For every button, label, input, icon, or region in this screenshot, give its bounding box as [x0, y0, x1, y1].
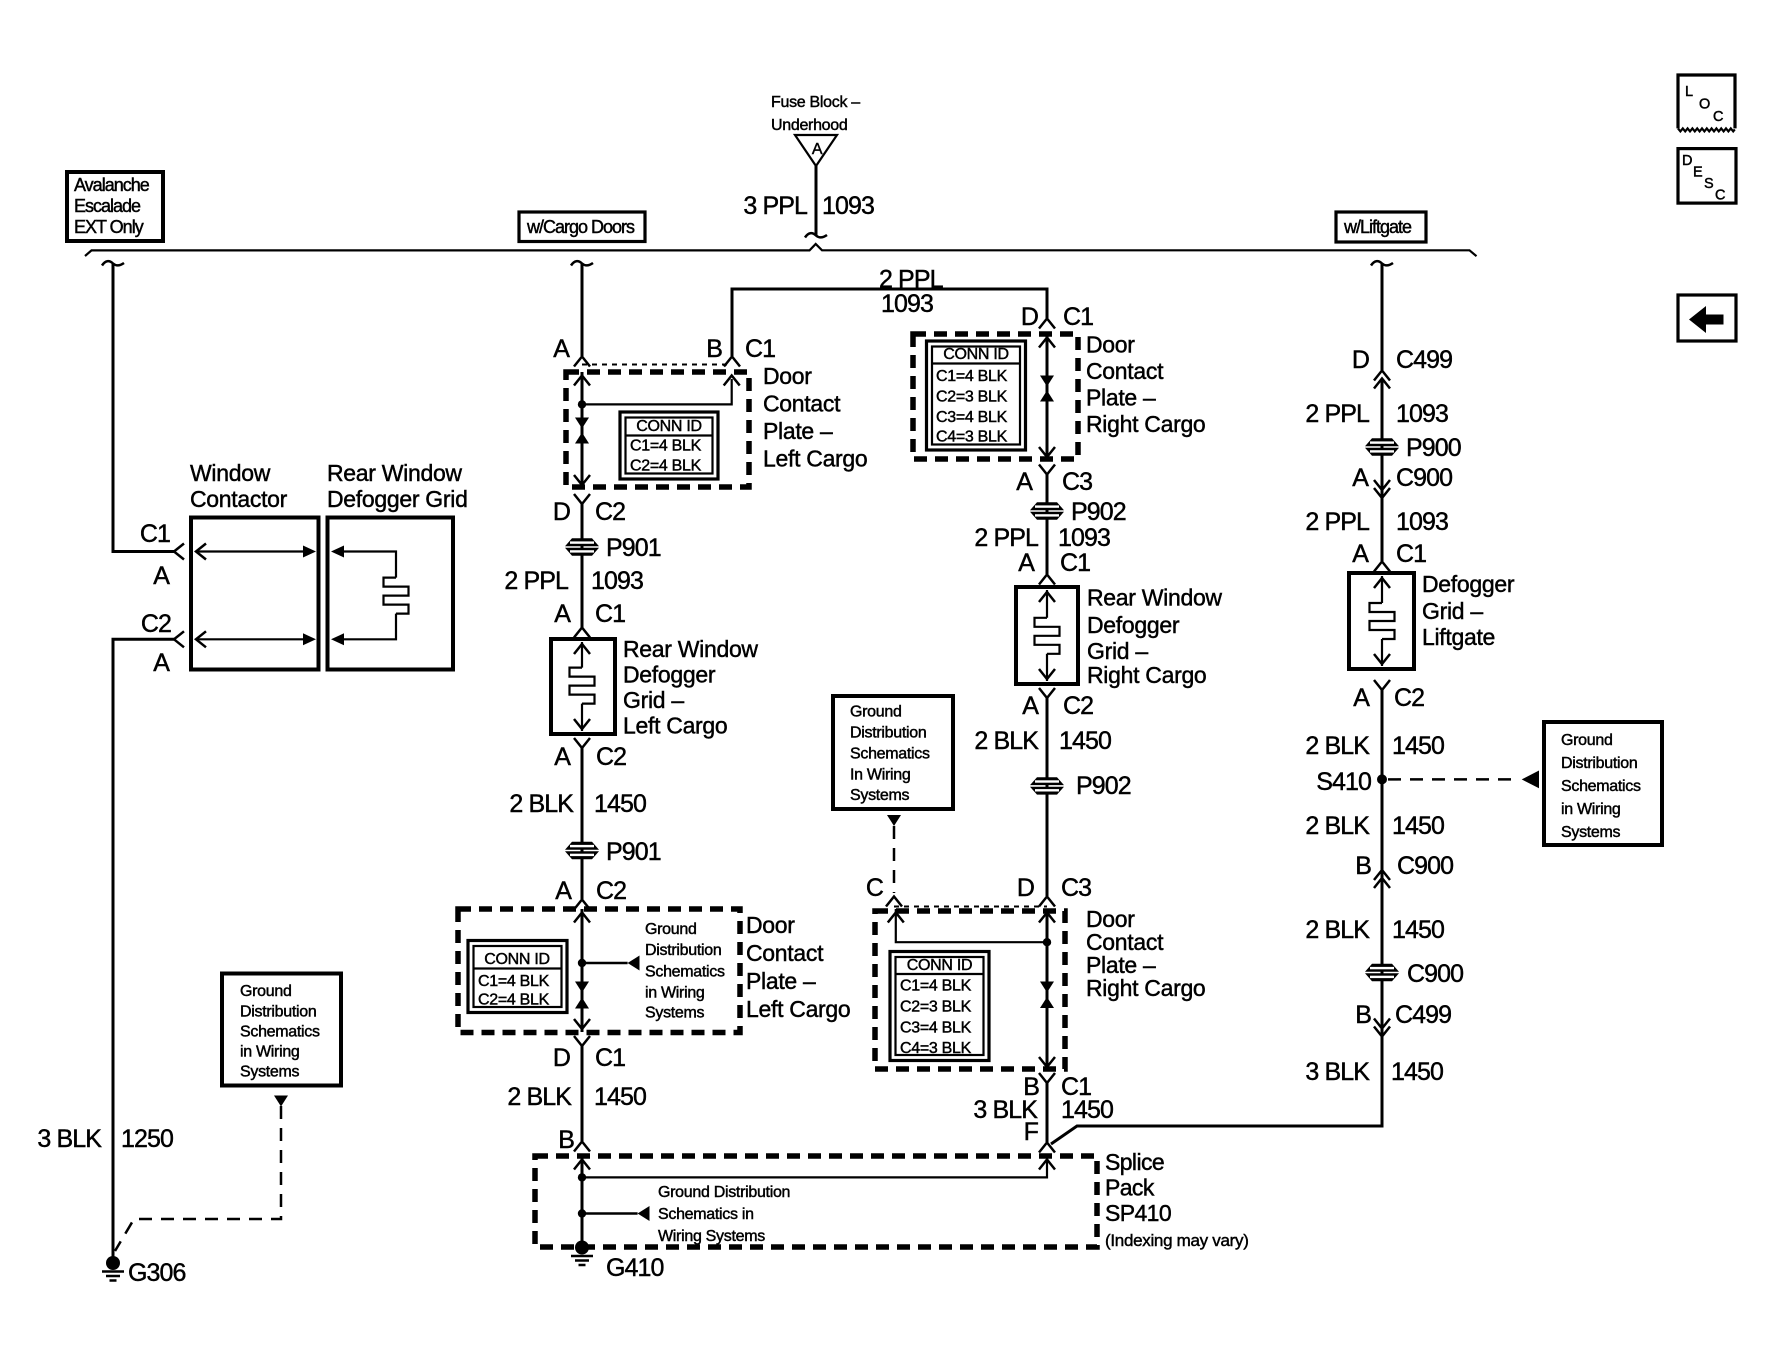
pin label B / C1	[706, 335, 775, 363]
svg-text:2 BLK: 2 BLK	[509, 790, 574, 818]
svg-text:Plate –: Plate –	[1086, 385, 1156, 411]
wire label 2 BLK 1450	[974, 727, 1111, 755]
dashed reference line S410 to GD box	[1388, 778, 1519, 781]
wire label 2 PPL 1093	[974, 524, 1110, 552]
svg-text:w/Cargo Doors: w/Cargo Doors	[526, 217, 635, 237]
grommet P901 (lower)	[565, 838, 661, 866]
wire: right plate feed down from branch	[1046, 289, 1049, 318]
svg-text:1093: 1093	[591, 567, 643, 595]
svg-text:Contact: Contact	[746, 940, 824, 966]
svg-text:Right Cargo: Right Cargo	[1086, 411, 1205, 437]
svg-text:G410: G410	[606, 1254, 664, 1282]
pin label C2 / A	[141, 610, 171, 677]
svg-text:Schematics: Schematics	[1561, 778, 1641, 795]
svg-text:Ground: Ground	[240, 983, 292, 1000]
rear window defogger grid legend box	[328, 518, 454, 670]
component label Door Contact Plate - Right Cargo (bottom)	[1086, 906, 1205, 1001]
component label Rear Window Defogger Grid - Left Cargo	[623, 636, 758, 739]
bus brace	[85, 244, 1477, 256]
ground G306	[102, 1256, 186, 1287]
svg-text:P901: P901	[606, 534, 661, 562]
svg-text:A: A	[555, 877, 572, 905]
component label Window Contactor	[190, 460, 288, 512]
pin label D / C1 (right plate top)	[1021, 303, 1093, 331]
svg-text:C3: C3	[1061, 874, 1091, 902]
back arrow box	[1678, 295, 1736, 341]
svg-text:Plate –: Plate –	[746, 968, 816, 994]
svg-text:1093: 1093	[1396, 508, 1448, 536]
pin label B / C499	[1355, 1001, 1451, 1029]
svg-text:D: D	[1017, 874, 1034, 902]
svg-text:w/Liftgate: w/Liftgate	[1343, 217, 1412, 237]
connector fork C1 window contactor	[174, 544, 184, 560]
connector fork A C3 below right plate	[1039, 465, 1055, 475]
svg-text:C2: C2	[596, 877, 626, 905]
svg-text:Ground Distribution: Ground Distribution	[658, 1184, 790, 1201]
svg-text:Wiring Systems: Wiring Systems	[658, 1228, 765, 1245]
connector fork A C1 above right grid	[1039, 575, 1055, 585]
svg-text:D: D	[1021, 303, 1038, 331]
wire label 2 BLK 1450	[1305, 916, 1444, 944]
svg-text:B: B	[706, 335, 722, 363]
svg-text:1093: 1093	[822, 192, 874, 220]
wire: left plate bottom to splice pack	[581, 1046, 584, 1141]
svg-text:C2: C2	[596, 743, 626, 771]
svg-text:C2=3 BLK: C2=3 BLK	[900, 999, 972, 1016]
pin label A / C2 (left plate bottom)	[555, 877, 626, 905]
svg-text:D: D	[553, 1044, 570, 1072]
svg-text:(Indexing may vary): (Indexing may vary)	[1105, 1231, 1249, 1250]
svg-text:in Wiring: in Wiring	[240, 1044, 300, 1061]
svg-text:Ground: Ground	[645, 921, 697, 938]
svg-text:Left Cargo: Left Cargo	[763, 446, 867, 472]
connector fork B C1 left plate	[724, 357, 740, 367]
pin label A / C2	[554, 743, 626, 771]
svg-text:C2: C2	[1063, 692, 1093, 720]
inline connector C499 return (double chevron down)	[1374, 1019, 1390, 1037]
wire: C499 to P900	[1381, 379, 1384, 491]
svg-text:L: L	[1685, 84, 1693, 100]
right plate top interior	[1039, 334, 1055, 459]
grommet C900	[1365, 960, 1463, 988]
CONN ID table (left plate top)	[620, 412, 718, 479]
svg-text:C: C	[1713, 109, 1723, 125]
dashed ground reference line to pin C	[893, 826, 896, 893]
svg-text:Underhood: Underhood	[771, 117, 847, 134]
connector fork D C3 right plate bottom	[1039, 897, 1055, 907]
svg-text:P900: P900	[1406, 434, 1461, 462]
pin label D / C499	[1352, 346, 1452, 374]
ground distribution schematics box (middle)	[833, 696, 953, 809]
svg-text:3 PPL: 3 PPL	[743, 192, 808, 220]
door contact plate right cargo (top) dashed box	[913, 334, 1078, 459]
svg-text:F: F	[1024, 1118, 1039, 1146]
svg-text:Grid –: Grid –	[1422, 598, 1483, 624]
wire: right plate bottom to splice F	[1046, 1083, 1049, 1142]
svg-text:C3=4 BLK: C3=4 BLK	[936, 409, 1008, 426]
svg-text:C2: C2	[1394, 684, 1424, 712]
wire label 2 PPL 1093	[1305, 400, 1448, 428]
svg-text:Avalanche: Avalanche	[74, 175, 150, 195]
connector fork A C2 below left grid	[574, 738, 590, 748]
svg-text:D: D	[1682, 153, 1692, 169]
svg-text:Defogger: Defogger	[623, 662, 716, 688]
wire label 3 BLK 1450	[1305, 1058, 1443, 1086]
grommet P902 (lower)	[1030, 772, 1131, 800]
LOC tab box	[1678, 75, 1735, 131]
svg-text:2 BLK: 2 BLK	[974, 727, 1039, 755]
svg-text:1093: 1093	[881, 290, 933, 318]
svg-text:Window: Window	[190, 460, 271, 486]
w/Liftgate box	[1336, 212, 1426, 242]
svg-text:2 BLK: 2 BLK	[507, 1083, 572, 1111]
svg-text:Contact: Contact	[763, 391, 841, 417]
component label Splice Pack SP410	[1105, 1149, 1249, 1250]
svg-text:In Wiring: In Wiring	[850, 767, 910, 784]
arrow below left GD box	[274, 1096, 288, 1107]
svg-text:C1: C1	[140, 520, 170, 548]
wire: left grid to left plate bottom	[581, 748, 584, 899]
left plate bottom interior	[574, 909, 640, 1032]
defogger grid liftgate box	[1349, 573, 1414, 669]
connector fork D C2 below left plate	[574, 494, 590, 504]
svg-text:Plate –: Plate –	[763, 418, 833, 444]
wire: C900 to liftgate grid	[1381, 490, 1384, 561]
component label Door Contact Plate - Left Cargo	[763, 363, 867, 472]
svg-text:CONN ID: CONN ID	[636, 418, 701, 435]
pin label A / C2	[1353, 684, 1424, 712]
svg-text:C900: C900	[1396, 464, 1452, 492]
svg-text:Defogger: Defogger	[1087, 612, 1180, 638]
pin label A / C2	[1022, 692, 1093, 720]
svg-text:2 PPL: 2 PPL	[504, 567, 569, 595]
CONN ID table (left plate bottom)	[468, 941, 567, 1013]
component label Door Contact Plate - Left Cargo (bottom)	[746, 912, 850, 1022]
connector fork F splice pack	[1039, 1143, 1055, 1153]
fuse block label	[771, 94, 860, 134]
hook: liftgate drop from bus	[1371, 261, 1393, 265]
svg-text:A: A	[1353, 684, 1370, 712]
svg-text:CONN ID: CONN ID	[943, 346, 1008, 363]
svg-text:Schematics: Schematics	[645, 964, 725, 981]
wire label 2 BLK 1450	[1305, 732, 1444, 760]
CONN ID table (right plate bottom)	[890, 952, 989, 1061]
svg-text:C3: C3	[1062, 468, 1092, 496]
svg-text:A: A	[812, 141, 823, 158]
grommet P900	[1365, 434, 1461, 462]
svg-text:1450: 1450	[594, 1083, 646, 1111]
svg-text:Systems: Systems	[1561, 824, 1621, 841]
wire: right grid to right plate bottom	[1046, 698, 1049, 896]
svg-text:B: B	[558, 1126, 574, 1154]
pin label A / C1	[1352, 540, 1426, 568]
pin label B / C900	[1355, 852, 1453, 880]
svg-text:Contact: Contact	[1086, 358, 1164, 384]
svg-text:2 BLK: 2 BLK	[1305, 916, 1370, 944]
component label Door Contact Plate - Right Cargo	[1086, 332, 1205, 438]
svg-text:1450: 1450	[1392, 812, 1444, 840]
pin label D / C2	[553, 498, 625, 526]
svg-text:1450: 1450	[594, 790, 646, 818]
svg-text:Pack: Pack	[1105, 1175, 1155, 1201]
svg-text:Grid –: Grid –	[623, 687, 684, 713]
svg-text:A: A	[1016, 468, 1033, 496]
thin dashed connector face line C-D	[894, 906, 1047, 908]
svg-text:C900: C900	[1397, 852, 1453, 880]
svg-text:C900: C900	[1407, 960, 1463, 988]
wire: branch B-C1 to D-C1 right plate	[732, 289, 1047, 356]
svg-text:C1=4 BLK: C1=4 BLK	[900, 978, 972, 995]
connector fork A C1 left plate	[574, 357, 590, 367]
right plate bottom interior	[888, 909, 1055, 1070]
svg-text:A: A	[554, 743, 571, 771]
svg-text:Defogger: Defogger	[1422, 571, 1515, 597]
svg-text:Distribution: Distribution	[645, 942, 721, 959]
connector fork A C2 left plate bottom	[574, 900, 590, 910]
pin label A / C1	[1018, 549, 1090, 577]
arrow below middle GD box	[887, 815, 901, 826]
wire: liftgate drop	[1381, 264, 1384, 370]
Avalanche Escalade EXT Only box	[67, 172, 163, 241]
wire: left plate D to grid A	[581, 504, 584, 628]
door contact plate left cargo (bottom) dashed box	[458, 909, 740, 1033]
svg-text:A: A	[553, 335, 570, 363]
svg-text:Liftgate: Liftgate	[1422, 624, 1495, 650]
svg-text:SP410: SP410	[1105, 1200, 1171, 1226]
svg-text:Systems: Systems	[850, 787, 910, 804]
wire label 2 PPL 1093	[1305, 508, 1448, 536]
wire: C900 to C900 grommet	[1381, 878, 1384, 1028]
svg-text:in Wiring: in Wiring	[645, 985, 705, 1002]
splice node S410	[1316, 768, 1387, 796]
svg-text:P902: P902	[1076, 772, 1131, 800]
svg-text:C1: C1	[595, 1044, 625, 1072]
component label Defogger Grid - Liftgate	[1422, 571, 1515, 650]
connector fork C2 window contactor	[174, 631, 184, 647]
grommet P901 (upper)	[565, 534, 661, 562]
svg-text:A: A	[1018, 549, 1035, 577]
svg-text:Ground: Ground	[1561, 732, 1613, 749]
connector fork D C1 right plate	[1039, 319, 1055, 329]
wire label 3 BLK 1450	[973, 1096, 1113, 1124]
svg-text:Distribution: Distribution	[1561, 755, 1637, 772]
svg-text:C1=4 BLK: C1=4 BLK	[478, 973, 550, 990]
svg-text:2 PPL: 2 PPL	[974, 524, 1039, 552]
fuse block triangle A	[795, 135, 837, 166]
svg-text:Left Cargo: Left Cargo	[623, 713, 727, 739]
thin dashed connector face line A-B	[582, 364, 732, 366]
pin label B / C1	[1023, 1073, 1091, 1101]
wire label 2 BLK 1450	[509, 790, 646, 818]
svg-text:1450: 1450	[1391, 1058, 1443, 1086]
svg-text:C499: C499	[1396, 346, 1452, 374]
svg-text:C1=4 BLK: C1=4 BLK	[936, 368, 1008, 385]
window contactor U1 box	[191, 518, 319, 670]
svg-text:D: D	[1352, 346, 1369, 374]
pin label C1 / A	[140, 520, 170, 590]
svg-text:Door: Door	[1086, 332, 1135, 358]
svg-text:B: B	[1355, 1001, 1371, 1029]
svg-text:CONN ID: CONN ID	[484, 951, 549, 968]
wire label 2 BLK 1450	[507, 1083, 646, 1111]
svg-text:2 PPL: 2 PPL	[1305, 508, 1370, 536]
svg-text:C1: C1	[1060, 549, 1090, 577]
connector fork B splice pack	[574, 1142, 590, 1152]
connector fork A C1 above liftgate grid	[1374, 562, 1390, 572]
svg-text:3 BLK: 3 BLK	[37, 1125, 102, 1153]
svg-text:EXT Only: EXT Only	[74, 217, 144, 237]
svg-text:Right Cargo: Right Cargo	[1086, 975, 1205, 1001]
svg-text:Rear Window: Rear Window	[327, 460, 462, 486]
hook at fuse wire bottom	[805, 233, 827, 237]
wire label 3 PPL 1093	[743, 192, 874, 220]
svg-text:Splice: Splice	[1105, 1149, 1164, 1175]
svg-text:CONN ID: CONN ID	[907, 957, 972, 974]
svg-text:in Wiring: in Wiring	[1561, 801, 1621, 818]
DESC tab box	[1678, 149, 1736, 204]
ground distribution note text (left plate bottom)	[645, 921, 725, 1022]
svg-text:Ground: Ground	[850, 704, 902, 721]
wire: drop to left door contact plate pin A	[581, 264, 584, 356]
component label Rear Window Defogger Grid	[327, 460, 468, 512]
svg-text:1250: 1250	[121, 1125, 173, 1153]
splice pack SP410 dashed box	[535, 1156, 1097, 1247]
svg-text:B: B	[1355, 852, 1371, 880]
svg-text:A: A	[554, 600, 571, 628]
splice pack interior	[574, 1156, 1055, 1241]
svg-text:C4=3 BLK: C4=3 BLK	[900, 1040, 972, 1057]
svg-text:Door: Door	[746, 912, 795, 938]
pin label A / C3	[1016, 468, 1092, 496]
ground distribution note text (splice pack)	[658, 1184, 790, 1245]
svg-text:Schematics: Schematics	[850, 746, 930, 763]
ground G410	[571, 1241, 664, 1283]
svg-text:2 BLK: 2 BLK	[1305, 812, 1370, 840]
w/Cargo Doors box	[519, 212, 645, 242]
dashed ground reference line to G306	[115, 1106, 281, 1251]
svg-text:2 BLK: 2 BLK	[1305, 732, 1370, 760]
door contact plate left cargo (top) dashed box	[566, 372, 749, 487]
left plate top interior	[574, 372, 740, 487]
svg-text:C: C	[1715, 188, 1725, 204]
svg-text:Defogger Grid: Defogger Grid	[327, 486, 468, 512]
wire: window contactor C2 to ground drop	[113, 639, 174, 1257]
wire: liftgate grid to C900 return	[1381, 690, 1384, 878]
svg-text:C2=4 BLK: C2=4 BLK	[630, 458, 702, 475]
svg-text:O: O	[1699, 97, 1710, 113]
connector fork B C1 below right plate bottom	[1039, 1073, 1055, 1083]
svg-text:C1: C1	[1063, 303, 1093, 331]
svg-text:1450: 1450	[1059, 727, 1111, 755]
svg-text:Schematics in: Schematics in	[658, 1206, 754, 1223]
svg-text:C1=4 BLK: C1=4 BLK	[630, 438, 702, 455]
svg-text:S: S	[1704, 176, 1713, 192]
svg-text:C: C	[866, 874, 884, 902]
svg-text:Distribution: Distribution	[850, 725, 926, 742]
svg-text:Distribution: Distribution	[240, 1004, 316, 1021]
svg-text:C1: C1	[745, 335, 775, 363]
wire from fuse block	[815, 166, 818, 236]
svg-text:Systems: Systems	[645, 1005, 705, 1022]
pin label A / C1	[554, 600, 625, 628]
svg-text:C499: C499	[1395, 1001, 1451, 1029]
grommet P902 (upper)	[1030, 498, 1126, 526]
svg-text:3 BLK: 3 BLK	[1305, 1058, 1370, 1086]
svg-text:Left Cargo: Left Cargo	[746, 996, 850, 1022]
svg-text:2 PPL: 2 PPL	[1305, 400, 1370, 428]
wire: C499 down and left to splice F	[1051, 1028, 1382, 1144]
ground distribution schematics box (left)	[222, 974, 341, 1086]
hook: cargo doors drop from bus	[571, 261, 593, 265]
svg-text:Right Cargo: Right Cargo	[1087, 662, 1206, 688]
ground distribution schematics box (right)	[1544, 722, 1662, 845]
door contact plate right cargo (bottom) dashed box	[875, 911, 1065, 1069]
connector fork A C2 below liftgate grid	[1374, 680, 1390, 690]
wire: right plate to right grid	[1046, 475, 1049, 575]
connector fork D C1 below left plate bottom	[574, 1036, 590, 1046]
svg-text:C2=4 BLK: C2=4 BLK	[478, 992, 550, 1009]
component label Rear Window Defogger Grid - Right Cargo	[1087, 585, 1222, 689]
svg-text:1093: 1093	[1396, 400, 1448, 428]
CONN ID table (right plate top)	[927, 341, 1026, 450]
wire: left drop to window contactor C1	[113, 264, 174, 552]
svg-text:Schematics: Schematics	[240, 1024, 320, 1041]
inline connector C900 (double chevron down)	[1374, 480, 1390, 498]
svg-text:C1: C1	[595, 600, 625, 628]
svg-text:P901: P901	[606, 838, 661, 866]
wire label 3 BLK 1250	[37, 1125, 173, 1153]
wire label 2 PPL 1093 (branch to right plate)	[879, 266, 944, 319]
svg-text:C4=3 BLK: C4=3 BLK	[936, 429, 1008, 446]
svg-text:Contactor: Contactor	[190, 486, 288, 512]
svg-text:1450: 1450	[1061, 1096, 1113, 1124]
pin label D / C3 (right plate bottom)	[1017, 874, 1091, 902]
connector fork A C1 above left grid	[574, 628, 590, 638]
rear window defogger grid right cargo box	[1016, 587, 1078, 684]
svg-text:A: A	[153, 649, 170, 677]
arrow into S410 reference	[1522, 771, 1539, 789]
svg-text:A: A	[153, 562, 170, 590]
svg-text:Rear Window: Rear Window	[623, 636, 758, 662]
svg-text:D: D	[553, 498, 570, 526]
svg-text:C3=4 BLK: C3=4 BLK	[900, 1020, 972, 1037]
rear window defogger grid left cargo box	[551, 639, 615, 734]
svg-text:C2: C2	[595, 498, 625, 526]
pin label D / C1	[553, 1044, 625, 1072]
hook: left drop from bus	[102, 261, 124, 265]
svg-text:Escalade: Escalade	[74, 196, 141, 216]
svg-text:Rear Window: Rear Window	[1087, 585, 1222, 611]
svg-text:P902: P902	[1071, 498, 1126, 526]
inline connector C900 return (double chevron up)	[1374, 870, 1390, 888]
svg-text:1450: 1450	[1392, 916, 1444, 944]
wire label 2 PPL 1093	[504, 567, 643, 595]
svg-text:Fuse Block –: Fuse Block –	[771, 94, 860, 111]
wire label 2 BLK 1450 (below S410)	[1305, 812, 1444, 840]
svg-text:1450: 1450	[1392, 732, 1444, 760]
svg-text:Grid –: Grid –	[1087, 638, 1148, 664]
svg-text:E: E	[1693, 165, 1703, 181]
svg-text:S410: S410	[1316, 768, 1371, 796]
connector fork C right plate bottom	[886, 897, 902, 907]
svg-text:C2=3 BLK: C2=3 BLK	[936, 389, 1008, 406]
svg-text:Door: Door	[763, 363, 812, 389]
svg-text:C2: C2	[141, 610, 171, 638]
svg-text:Systems: Systems	[240, 1064, 300, 1081]
svg-text:A: A	[1352, 464, 1369, 492]
inline connector C499 (double chevron up)	[1374, 371, 1390, 389]
svg-text:A: A	[1352, 540, 1369, 568]
